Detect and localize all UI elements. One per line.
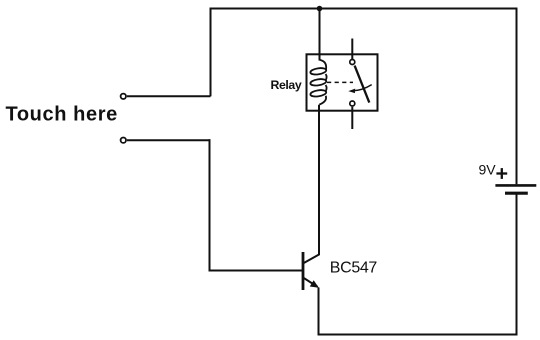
terminal lower touch contact	[121, 138, 126, 143]
relay contact lower	[350, 101, 355, 106]
wire top rail	[210, 8, 518, 10]
wire junction to relay coil top	[319, 9, 321, 61]
wire bottom rail	[318, 334, 518, 336]
transistor Q1 emitter diagonal	[304, 278, 318, 287]
terminal upper touch contact	[121, 94, 126, 99]
wire emitter down	[318, 288, 320, 336]
wire down left side	[209, 139, 211, 271]
relay actuation dashed link	[327, 81, 353, 83]
relay actuation arrow	[353, 85, 372, 91]
wire relay switch lower stub	[351, 107, 353, 129]
svg-text:BC547: BC547	[330, 260, 378, 277]
wire upper touch terminal to left rail	[127, 95, 211, 97]
inductor relay coil L1	[310, 60, 327, 105]
wire right rail to battery positive	[516, 8, 518, 185]
node junction at top rail	[317, 6, 323, 12]
wire battery negative to bottom rail	[516, 194, 518, 336]
label battery plus sign	[496, 172, 507, 174]
transistor Q1 emitter arrowhead	[310, 280, 319, 288]
wire to transistor base	[209, 270, 303, 272]
wire left rail	[210, 8, 212, 97]
transistor Q1 base bar	[302, 252, 305, 290]
svg-text:Touch here: Touch here	[6, 104, 118, 126]
transistor Q1 collector diagonal	[304, 255, 319, 264]
relay contact upper	[350, 60, 355, 65]
wire relay coil bottom to transistor collector	[318, 105, 320, 255]
relay K1 box	[307, 54, 378, 110]
battery BT1 negative plate	[505, 192, 528, 195]
relay switch blade	[355, 66, 370, 103]
wire lower touch terminal right	[127, 139, 211, 141]
svg-text:9V: 9V	[479, 161, 497, 177]
battery BT1 positive plate	[495, 184, 536, 187]
wire relay switch upper stub	[351, 39, 353, 60]
svg-text:Relay: Relay	[271, 78, 302, 92]
